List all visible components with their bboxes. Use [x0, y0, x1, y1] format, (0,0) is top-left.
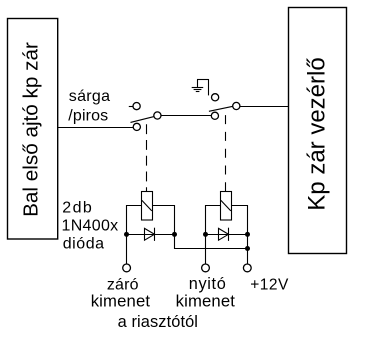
relay K2 coil diagonal: [221, 200, 231, 211]
wire from S1 output to S2 common: [161, 115, 212, 117]
switch S2 arm: [209, 106, 233, 111]
switch S1 NC contact: [133, 103, 140, 110]
switch S1 NC contact stub: [129, 106, 133, 108]
svg-text:2db: 2db: [62, 200, 93, 217]
dashed link S1 to relay K1: [146, 124, 148, 191]
K1 right coil wire: [153, 206, 248, 249]
K2 right coil wire: [232, 206, 248, 264]
ground symbol: [192, 79, 209, 95]
relay K2 coil box: [221, 192, 232, 221]
junction dot K2 left: [203, 232, 208, 237]
switch S1 output contact: [154, 112, 161, 119]
left box (Bal első ajtó kp zár): [8, 19, 58, 240]
wire from S2 output to right box: [240, 106, 289, 108]
switch S2 NC contact (to ground): [212, 94, 219, 101]
switch S2 common contact: [211, 112, 218, 119]
right box (Kp zár vezérlő): [289, 8, 347, 254]
diode D1: [145, 228, 155, 240]
junction dot +12V link: [245, 246, 250, 251]
switch S1 common contact: [133, 123, 140, 130]
svg-text:1N400x: 1N400x: [62, 218, 119, 235]
terminal +12V: [243, 264, 251, 272]
svg-text:sárga: sárga: [69, 88, 111, 105]
svg-text:kimenet: kimenet: [91, 292, 151, 311]
terminal nyitó kimenet: [202, 264, 210, 272]
relay K1 coil diagonal: [142, 200, 152, 211]
svg-text:Bal első ajtó kp zár: Bal első ajtó kp zár: [19, 42, 42, 217]
K1 left coil wire: [127, 206, 142, 264]
dashed link S2 to relay K2: [225, 115, 227, 191]
svg-text:a riasztótól: a riasztótól: [118, 313, 198, 331]
terminal záró kimenet: [123, 264, 131, 272]
switch S1 arm: [131, 117, 155, 123]
svg-text:/piros: /piros: [68, 107, 108, 124]
diode D2: [219, 228, 229, 240]
junction dot K1 left: [124, 232, 129, 237]
relay K1 coil box: [142, 192, 153, 221]
K2 left coil wire: [206, 206, 221, 264]
diode D1 wire: [127, 234, 175, 236]
svg-text:Kp zár vezérlő: Kp zár vezérlő: [303, 57, 330, 210]
diode D2 wire: [206, 234, 248, 236]
wire from left box to switch S1 common: [58, 127, 134, 129]
svg-text:kimenet: kimenet: [176, 291, 236, 310]
switch S2 output contact: [233, 102, 240, 109]
svg-text:dióda: dióda: [63, 236, 105, 253]
junction dot K1 right: [172, 232, 177, 237]
junction dot K2 right: [245, 232, 250, 237]
svg-text:+12V: +12V: [250, 276, 289, 293]
